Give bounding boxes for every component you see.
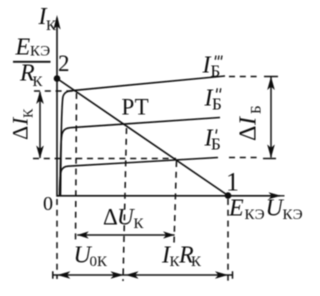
IКRК dimension arrow [125,271,233,279]
svg-text:0К: 0К [90,254,109,270]
dashed vertical below origin [56,199,58,279]
U0К dimension arrow [53,271,125,279]
ΔIБ dimension arrow [263,77,278,159]
svg-text:К: К [46,18,57,34]
svg-text:I: I [236,116,262,126]
label IБ' [204,126,221,154]
ΔIК label (rotated) [8,108,37,140]
svg-text:КЭ: КЭ [30,44,50,60]
curve IБ''' [61,76,226,195]
svg-text:К: К [191,254,202,270]
svg-text:К: К [33,74,44,90]
dashed level y=157.5 right [229,157,260,159]
svg-text:0: 0 [43,193,53,215]
y-axis [56,18,58,197]
ΔIК dimension arrow [36,91,44,159]
svg-text:Б: Б [212,95,222,114]
svg-text:Б: Б [211,135,221,154]
dashed level y=76.5 right [229,76,261,78]
load line [57,79,228,196]
y-axis arrowhead [53,15,60,30]
dashed vertical below PT [123,128,127,281]
point 1 dot [225,192,232,199]
svg-text:КЭ: КЭ [245,207,265,223]
svg-text:К: К [134,216,145,232]
curve IБ'' [60,118,220,196]
dashed vertical below point 1 [227,199,229,283]
label IБ'' [204,86,222,114]
svg-text:1: 1 [226,168,239,197]
svg-text:КЭ: КЭ [283,207,303,223]
svg-text:E: E [15,35,31,61]
svg-text:РТ: РТ [122,95,149,120]
dashed vertical x=176 [174,161,177,244]
svg-text:Δ: Δ [103,205,118,230]
svg-text:Δ: Δ [8,126,33,140]
x-axis [57,195,280,197]
dashed level y=158.5 left [33,158,176,160]
svg-text:Б: Б [249,105,265,114]
svg-text:Δ: Δ [236,126,262,141]
svg-text:U: U [117,205,135,230]
ΔIБ label (rotated) [236,105,265,141]
label IБ''' [202,53,223,81]
x-axis arrowhead [269,192,282,199]
svg-text:2: 2 [58,51,70,76]
curve IБ' [60,158,219,196]
point 2 dot [54,75,61,82]
svg-text:Б: Б [211,62,221,81]
svg-text:E: E [228,196,244,222]
dashed vertical x=76 (saturation point) [76,93,77,244]
dashed level y=91 left [34,90,76,92]
ΔUК dimension arrow [77,231,174,238]
svg-text:К: К [22,108,37,118]
